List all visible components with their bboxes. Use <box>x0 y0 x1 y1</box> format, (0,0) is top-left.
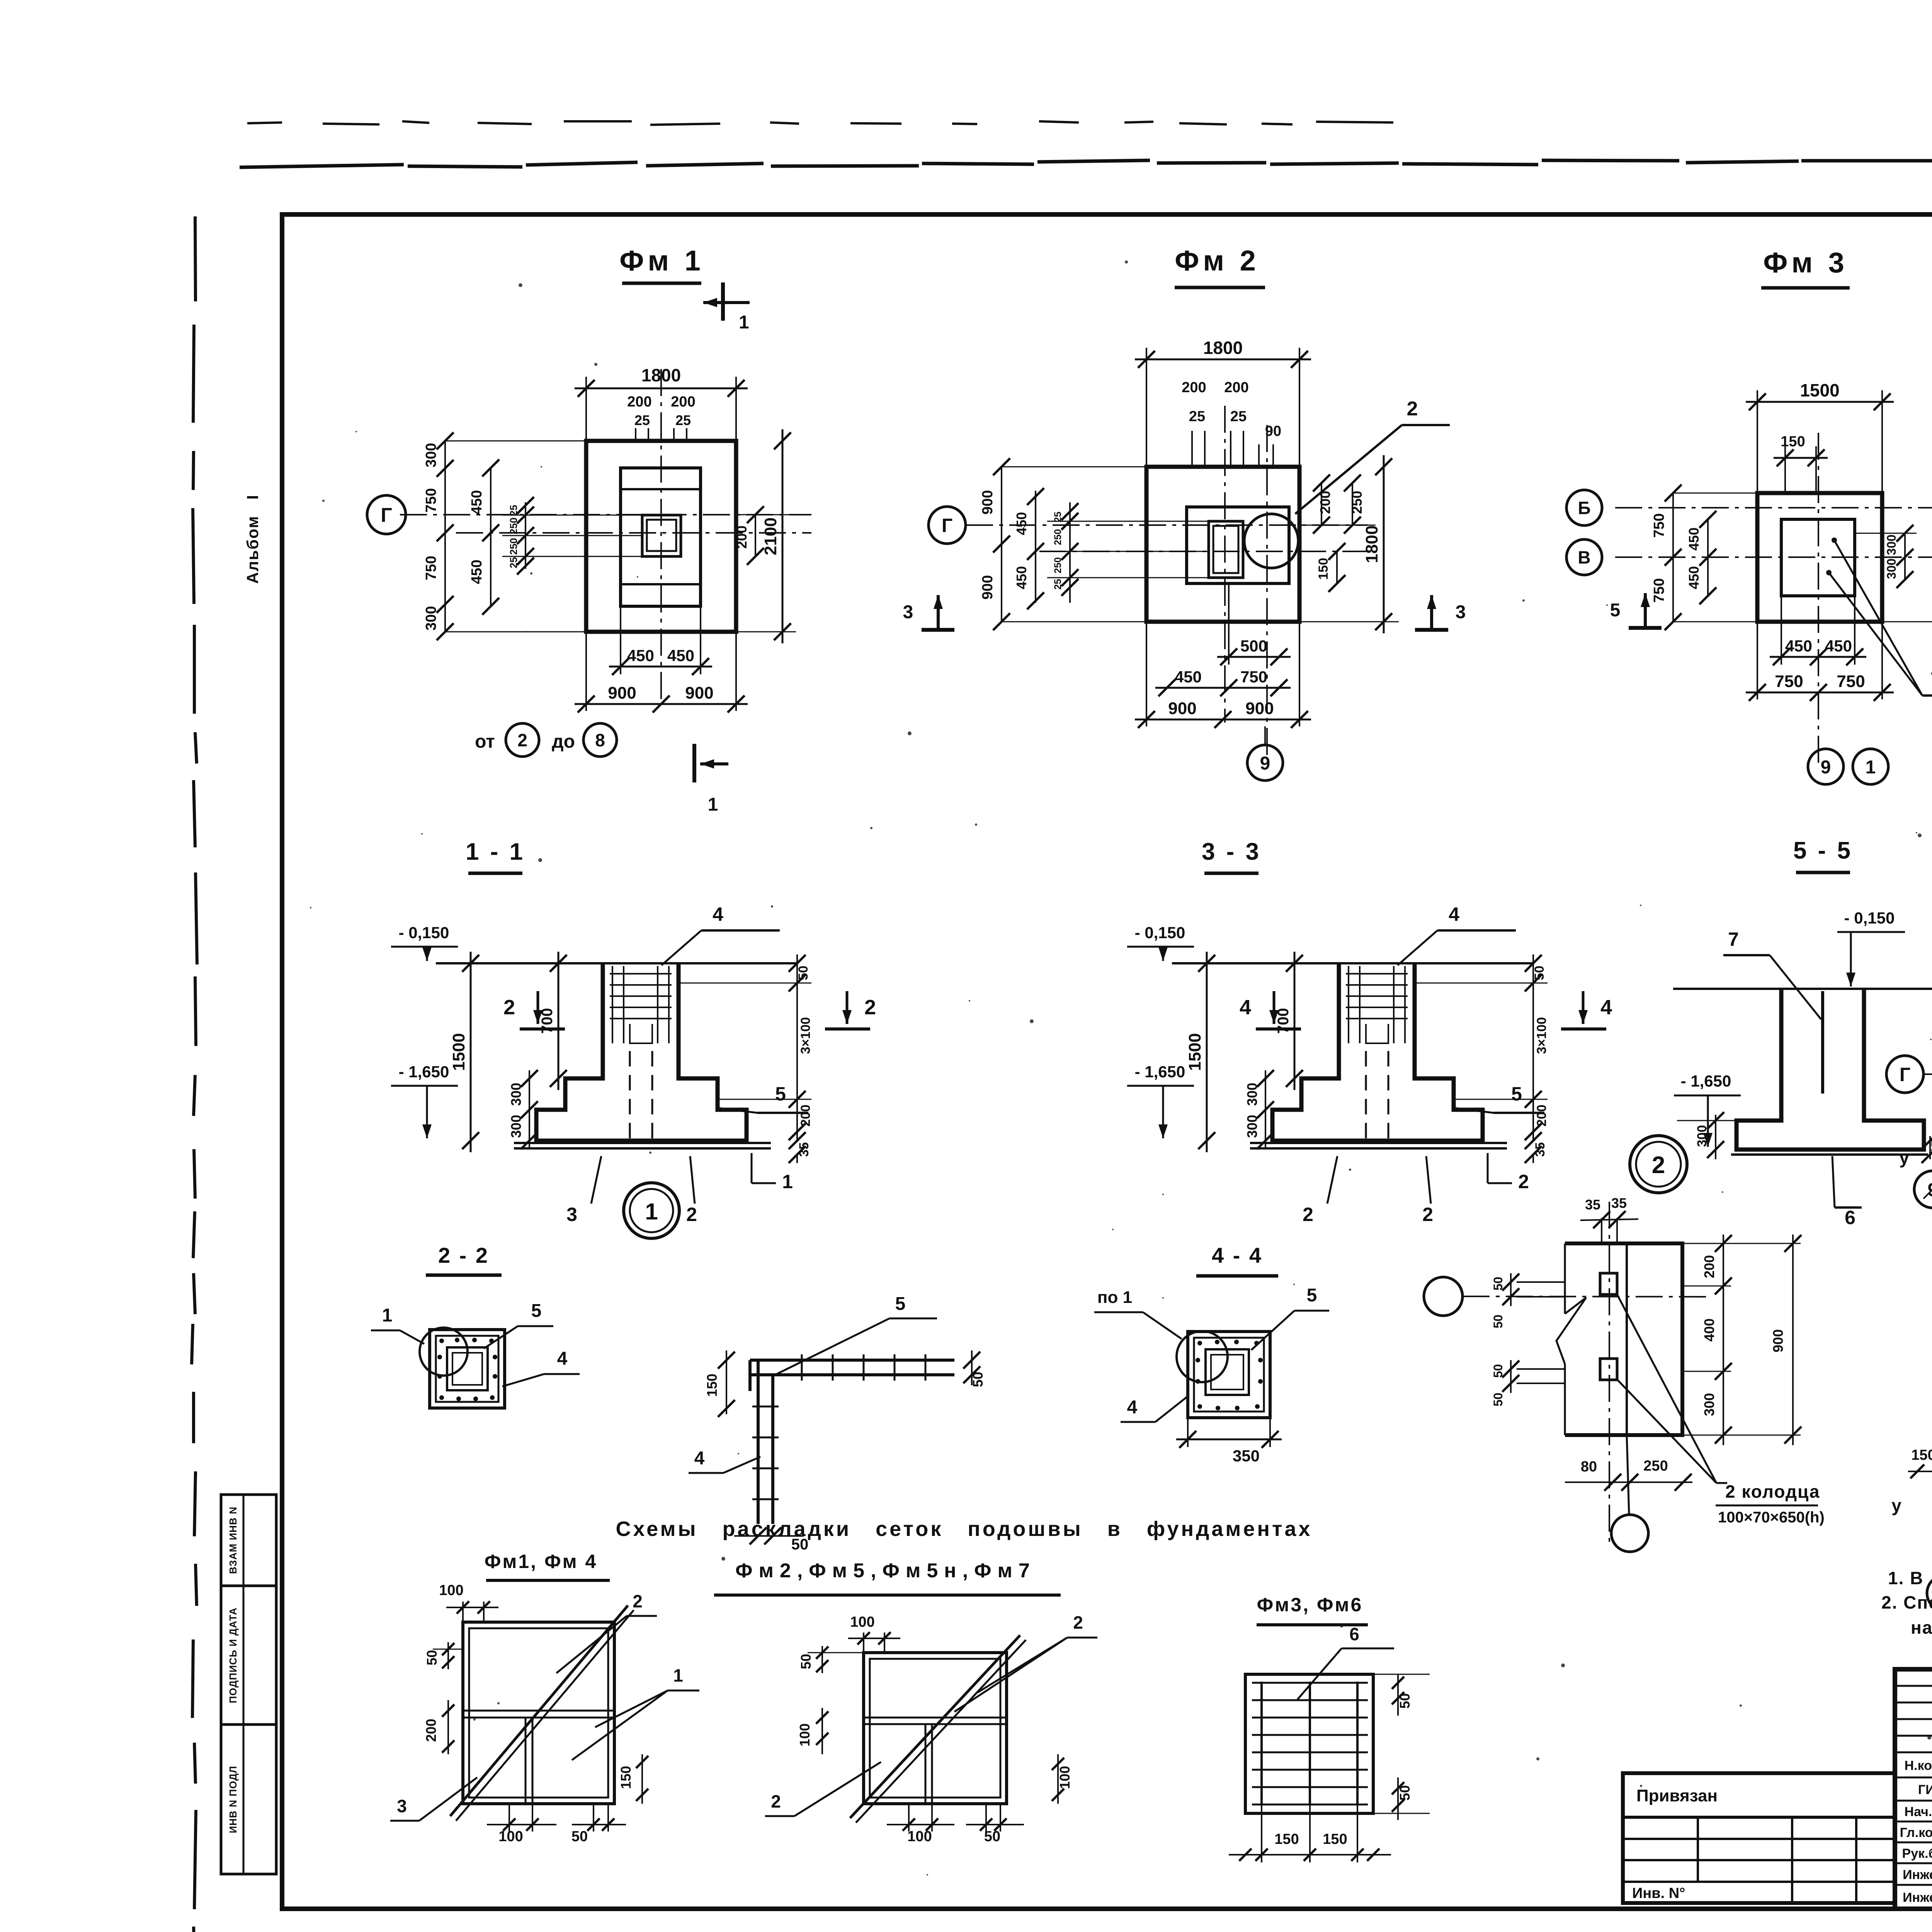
svg-text:Инженер: Инженер <box>1903 1867 1932 1882</box>
svg-text:300: 300 <box>1244 1115 1260 1138</box>
svg-text:3: 3 <box>1456 602 1466 622</box>
section 1 - 1 dim 700 <box>558 952 560 1090</box>
plan Fm3 dim 150 <box>1784 446 1786 493</box>
4-4 outer mesh square <box>1188 1332 1270 1418</box>
detail marker circle 2 <box>1630 1136 1687 1193</box>
svg-text:90: 90 <box>1265 423 1281 439</box>
svg-text:750: 750 <box>423 556 439 580</box>
svg-text:1500: 1500 <box>1929 539 1932 577</box>
svg-text:Гл.констр: Гл.констр <box>1900 1825 1932 1840</box>
svg-text:900: 900 <box>1245 699 1274 718</box>
svg-text:450: 450 <box>469 560 485 584</box>
svg-text:Фм2,Фм5,Фм5н,Фм7: Фм2,Фм5,Фм5н,Фм7 <box>735 1560 1036 1582</box>
svg-text:4: 4 <box>1127 1397 1138 1418</box>
svg-text:1800: 1800 <box>641 365 681 385</box>
sheet frame <box>282 214 1932 1909</box>
svg-text:- 0,150: - 0,150 <box>399 923 449 942</box>
svg-text:5: 5 <box>895 1294 906 1314</box>
svg-text:750: 750 <box>1651 578 1667 602</box>
4-4 inner mesh square <box>1206 1349 1249 1395</box>
svg-text:450: 450 <box>1014 566 1029 589</box>
svg-text:50: 50 <box>1532 966 1547 980</box>
section 3 - 3 dim 35 <box>1532 1155 1534 1163</box>
svg-text:25: 25 <box>634 412 650 428</box>
svg-text:200: 200 <box>1224 379 1248 396</box>
small left table privyazan <box>1623 1773 1895 1903</box>
plan Fm2 bottom dims 500 <box>1228 583 1230 665</box>
svg-text:50: 50 <box>571 1828 588 1845</box>
svg-text:250: 250 <box>1349 491 1365 514</box>
svg-text:35: 35 <box>1611 1195 1627 1211</box>
svg-text:750: 750 <box>1651 513 1667 537</box>
svg-text:3: 3 <box>566 1204 577 1225</box>
svg-text:3×100: 3×100 <box>1534 1017 1549 1054</box>
svg-text:Фм 2: Фм 2 <box>1175 245 1260 277</box>
section 1 - 1 column rebar <box>612 966 613 1043</box>
svg-text:100×70×650(h): 100×70×650(h) <box>1718 1509 1825 1526</box>
svg-text:35: 35 <box>797 1142 811 1157</box>
mesh Fm3 bottom dim 150 150 <box>1261 1806 1262 1862</box>
svg-text:50: 50 <box>1491 1277 1505 1291</box>
svg-text:2: 2 <box>864 996 876 1019</box>
svg-text:от: от <box>475 731 495 752</box>
svg-text:25: 25 <box>1053 579 1063 590</box>
svg-text:4: 4 <box>1240 996 1251 1019</box>
plan Fm3 bottom dims 750 750 <box>1757 622 1758 699</box>
plan Fm3 callout 7 <box>1922 694 1932 697</box>
svg-text:50: 50 <box>1491 1393 1505 1406</box>
svg-text:250: 250 <box>1053 529 1063 545</box>
svg-text:1: 1 <box>708 794 718 815</box>
svg-text:25: 25 <box>1189 408 1205 425</box>
well plan axis circle bottom <box>1611 1515 1648 1552</box>
svg-text:150: 150 <box>1323 1831 1347 1847</box>
svg-text:В: В <box>1578 548 1590 568</box>
section 3 - 3 dim 1500 <box>1206 952 1208 1152</box>
svg-text:1 - 1: 1 - 1 <box>466 838 525 865</box>
svg-text:750: 750 <box>1837 672 1865 691</box>
anchor well 1 <box>1600 1273 1617 1294</box>
plan Fm2 dim chain 450 450 <box>1035 491 1036 603</box>
well plan axis circle left <box>1424 1277 1463 1316</box>
svg-text:80: 80 <box>1581 1459 1597 1475</box>
svg-text:7: 7 <box>1728 929 1739 950</box>
schema Fm2 axis circle 9 <box>1914 1171 1932 1208</box>
title block blank rows <box>1895 1685 1932 1687</box>
section 1 - 1 foundation outline <box>536 963 747 1141</box>
svg-text:1500: 1500 <box>1185 1033 1204 1071</box>
plan Fm1 bottom dims 450 450 <box>620 606 621 674</box>
svg-text:200: 200 <box>798 1105 813 1127</box>
svg-text:250: 250 <box>508 517 519 534</box>
svg-text:300: 300 <box>508 1083 524 1106</box>
plan Fm1 section mark 1 top <box>721 282 725 321</box>
svg-text:250: 250 <box>1643 1458 1668 1474</box>
corner detail dim 150 <box>726 1350 727 1414</box>
svg-text:450: 450 <box>1825 637 1852 655</box>
section 3 - 3 right chain 50 3x100 200 <box>1415 983 1548 984</box>
svg-text:ПОДПИСЬ И ДАТА: ПОДПИСЬ И ДАТА <box>227 1607 239 1703</box>
svg-text:450: 450 <box>1175 668 1202 686</box>
svg-text:Н.контр.: Н.контр. <box>1905 1759 1932 1773</box>
title block outer <box>1895 1669 1932 1909</box>
plan Fm3 section marks 5 <box>1644 593 1647 628</box>
svg-text:200: 200 <box>734 526 750 549</box>
faint secondary torn line top-left <box>247 121 1393 125</box>
svg-text:2: 2 <box>633 1591 643 1611</box>
2-2 detail circle <box>420 1328 468 1376</box>
svg-text:450: 450 <box>1686 566 1702 589</box>
mesh Fm3 horizontal bars <box>1252 1682 1368 1684</box>
section 5-5 dim 300 <box>1715 1115 1716 1159</box>
plan Fm1 right dim 2100 <box>736 631 796 633</box>
plan Fm2 dim chain 25 250 250 25 <box>1069 502 1071 603</box>
svg-text:у: у <box>1899 1148 1909 1168</box>
svg-text:500: 500 <box>1240 637 1267 655</box>
plan Fm1 section mark 1 bottom <box>692 744 696 782</box>
svg-text:150: 150 <box>1316 558 1331 580</box>
svg-text:100: 100 <box>498 1828 523 1845</box>
svg-text:300: 300 <box>1244 1083 1260 1106</box>
section 5-5 bedding line <box>1731 1153 1928 1156</box>
plan Fm2 top dim 1800 <box>1146 348 1147 467</box>
section 1 - 1 bedding mat <box>514 1142 771 1144</box>
plan Fm1 left dim chain 300 750 750 300 <box>444 441 446 632</box>
svg-text:Привязан: Привязан <box>1636 1786 1718 1805</box>
svg-text:450: 450 <box>1785 637 1812 655</box>
svg-text:50: 50 <box>796 966 811 980</box>
axis circles B and V <box>1566 490 1602 526</box>
mesh Fm2 diagonal <box>850 1635 1020 1818</box>
svg-text:350: 350 <box>1233 1447 1260 1465</box>
svg-text:450: 450 <box>627 646 654 665</box>
svg-text:ГИП: ГИП <box>1918 1782 1932 1797</box>
section 5-5 outline <box>1736 989 1924 1150</box>
well plan right dim 900 <box>1792 1235 1794 1445</box>
svg-text:4: 4 <box>1449 903 1459 925</box>
svg-text:200: 200 <box>1701 1255 1717 1278</box>
svg-text:300: 300 <box>1884 558 1898 579</box>
svg-text:50: 50 <box>1491 1364 1505 1378</box>
plan Fm2 section marks 3 <box>937 595 940 630</box>
plan Fm2 bottom dims 900 900 <box>1146 622 1147 726</box>
svg-text:Фм 3: Фм 3 <box>1763 247 1848 279</box>
svg-text:25: 25 <box>1230 408 1247 425</box>
svg-text:Фм 1: Фм 1 <box>619 245 704 277</box>
2-2 rebar dots <box>439 1338 444 1343</box>
4-4 detail circle <box>1177 1331 1228 1382</box>
svg-text:5: 5 <box>1307 1285 1317 1306</box>
svg-text:2: 2 <box>1652 1152 1665 1179</box>
svg-text:450: 450 <box>1014 512 1029 535</box>
well plan leader 2 wells <box>1617 1294 1716 1483</box>
svg-text:9: 9 <box>1821 757 1831 777</box>
svg-text:450: 450 <box>667 646 694 665</box>
svg-text:2: 2 <box>1407 398 1418 420</box>
schema Fm2 y-axis diagonal <box>1923 885 1932 1199</box>
svg-text:2 - 2: 2 - 2 <box>438 1243 489 1267</box>
svg-text:Рук.бриг.: Рук.бриг. <box>1902 1846 1932 1861</box>
plan Fm1 right dim 200 <box>736 514 810 515</box>
mesh Fm1 diagonal <box>450 1605 628 1816</box>
svg-text:1: 1 <box>739 312 749 333</box>
svg-text:300: 300 <box>423 606 439 630</box>
svg-text:150: 150 <box>704 1374 720 1397</box>
svg-text:200: 200 <box>1534 1105 1549 1127</box>
svg-text:4 - 4: 4 - 4 <box>1212 1243 1263 1267</box>
section 1 - 1 ground line <box>436 962 797 964</box>
svg-text:Г: Г <box>942 515 952 536</box>
anchor well 2 <box>1600 1359 1617 1380</box>
svg-text:ИНВ N ПОДЛ: ИНВ N ПОДЛ <box>227 1766 239 1833</box>
plan Fm2 right dim 1800 <box>1299 621 1399 622</box>
svg-text:9: 9 <box>1260 753 1270 774</box>
detail marker circle 1 <box>624 1183 679 1238</box>
plan Fm3 bottom dims 450 450 <box>1781 596 1782 665</box>
svg-text:до: до <box>552 731 575 752</box>
svg-text:200: 200 <box>627 394 651 410</box>
svg-text:300: 300 <box>508 1115 524 1138</box>
plan Fm2 outer footing <box>1146 467 1299 622</box>
svg-text:1: 1 <box>1866 757 1876 777</box>
svg-text:4: 4 <box>713 903 723 925</box>
svg-text:2: 2 <box>1303 1204 1313 1225</box>
svg-text:200: 200 <box>671 394 695 410</box>
axis circle G2 <box>929 507 966 544</box>
svg-text:ВЗАМ ИНВ N: ВЗАМ ИНВ N <box>227 1507 239 1574</box>
svg-text:1. В таблицах даны норм: 1. В таблицах даны нормативные нагрузки. <box>1888 1568 1932 1588</box>
svg-text:8: 8 <box>595 730 605 750</box>
svg-text:1: 1 <box>645 1199 658 1225</box>
plan Fm3 left dim chain 750 750 <box>1672 493 1674 622</box>
svg-text:2100: 2100 <box>761 517 780 555</box>
svg-text:100: 100 <box>850 1614 874 1630</box>
svg-text:Альбом I: Альбом I <box>243 494 262 584</box>
svg-text:Б: Б <box>1578 498 1590 518</box>
schema Fm3 axis circle 9 <box>1927 1575 1932 1611</box>
svg-text:5: 5 <box>531 1301 542 1321</box>
svg-text:6: 6 <box>1349 1624 1359 1644</box>
svg-text:2 колодца: 2 колодца <box>1725 1481 1820 1502</box>
svg-text:400: 400 <box>1701 1318 1717 1342</box>
svg-text:1: 1 <box>782 1171 793 1192</box>
svg-text:Схемы раскладки сеток по: Схемы раскладки сеток подошвы в фундамен… <box>616 1517 1312 1541</box>
torn paper top edge <box>240 157 1932 167</box>
svg-text:750: 750 <box>423 488 439 512</box>
plan Fm3 top dim 1500 <box>1757 390 1758 493</box>
plan Fm1 top dim 1800 <box>585 377 587 441</box>
svg-text:200: 200 <box>423 1719 439 1742</box>
svg-text:25: 25 <box>508 557 519 568</box>
svg-text:35: 35 <box>1533 1142 1548 1157</box>
svg-text:2: 2 <box>1073 1612 1083 1633</box>
svg-text:900: 900 <box>1168 699 1196 718</box>
section 5-5 dim 110 <box>1864 988 1932 990</box>
svg-text:4: 4 <box>557 1349 568 1369</box>
plan Fm3 axis circles 9 1 <box>1808 749 1844 784</box>
svg-text:900: 900 <box>685 684 713 702</box>
schema Fm2 axis G <box>1886 1056 1923 1093</box>
svg-text:2: 2 <box>1422 1204 1433 1225</box>
mesh Fm1 outer <box>463 1622 614 1804</box>
svg-text:100: 100 <box>797 1723 813 1747</box>
svg-text:2: 2 <box>1518 1171 1529 1192</box>
svg-text:2. Спецификацию на фундамен: 2. Спецификацию на фундаменты Фм1,Фм2,Фм… <box>1881 1592 1932 1612</box>
section 5-5 dim 35 <box>1929 1136 1931 1159</box>
svg-text:- 0,150: - 0,150 <box>1135 923 1185 942</box>
svg-text:- 1,650: - 1,650 <box>1681 1072 1731 1090</box>
svg-text:4: 4 <box>694 1448 705 1469</box>
svg-text:- 1,650: - 1,650 <box>1135 1063 1185 1081</box>
svg-text:150: 150 <box>1781 434 1805 450</box>
svg-text:50: 50 <box>424 1650 440 1665</box>
svg-text:50: 50 <box>798 1654 814 1669</box>
svg-text:900: 900 <box>980 490 996 514</box>
svg-text:900: 900 <box>1770 1329 1786 1352</box>
well plan break symbol <box>1556 1298 1586 1364</box>
svg-text:Фм3, Фм6: Фм3, Фм6 <box>1257 1594 1363 1616</box>
svg-text:Г: Г <box>1900 1064 1910 1085</box>
corner mesh detail bars <box>750 1359 954 1362</box>
well plan outline <box>1565 1243 1682 1435</box>
svg-text:50: 50 <box>1491 1315 1505 1328</box>
svg-text:7: 7 <box>1930 668 1932 690</box>
svg-text:Инв. N°: Инв. N° <box>1632 1885 1685 1901</box>
svg-text:200: 200 <box>1317 491 1333 514</box>
title block name rows <box>1895 1777 1932 1779</box>
plan Fm2 centerlines <box>966 524 1368 526</box>
svg-text:150: 150 <box>1911 1447 1932 1463</box>
mesh Fm3 outer <box>1245 1674 1373 1813</box>
plan Fm2 column box <box>1209 521 1243 578</box>
svg-text:100: 100 <box>907 1828 932 1845</box>
svg-text:100: 100 <box>439 1582 463 1599</box>
plan Fm3 centerlines <box>1615 507 1932 509</box>
axis circle G <box>367 495 406 534</box>
svg-text:9: 9 <box>1928 1180 1932 1200</box>
svg-text:5: 5 <box>775 1083 786 1105</box>
plan Fm2 axis circle 9 <box>1247 745 1283 781</box>
plan Fm1 dim chain 450 450 <box>490 468 492 606</box>
well plan inner line <box>1626 1243 1628 1435</box>
svg-text:на листе КЖ-8.: на листе КЖ-8. <box>1911 1617 1932 1638</box>
mesh Fm2 mid bands <box>864 1717 1007 1719</box>
svg-text:300: 300 <box>1695 1125 1709 1147</box>
svg-text:Фм1, Фм 4: Фм1, Фм 4 <box>485 1551 598 1572</box>
svg-text:900: 900 <box>608 684 636 702</box>
section 5-5 ground line <box>1673 988 1932 990</box>
plan Fm3 right dim 1500 <box>1882 621 1932 622</box>
mesh Fm2 outer <box>864 1653 1007 1804</box>
svg-text:200: 200 <box>1182 379 1206 396</box>
svg-text:6: 6 <box>1845 1207 1855 1228</box>
section 3 - 3 dim 700 <box>1294 952 1296 1090</box>
svg-text:100: 100 <box>1057 1766 1073 1789</box>
section 5-5 center rebar outlet <box>1821 991 1824 1094</box>
svg-text:150: 150 <box>618 1766 634 1789</box>
svg-text:3: 3 <box>903 602 913 622</box>
section 1 - 1 dim 1500 <box>470 952 472 1152</box>
plan Fm2 right dims 200 250 <box>1299 525 1376 526</box>
svg-text:1800: 1800 <box>1362 526 1381 563</box>
plan Fm1 dim chain 25 250 250 25 <box>525 502 526 569</box>
well plan centerline <box>1609 1202 1610 1542</box>
svg-text:у: у <box>1891 1495 1901 1515</box>
svg-text:4: 4 <box>1600 996 1612 1019</box>
4-4 dim 350 <box>1187 1418 1189 1447</box>
section 3 - 3 dims 300 300 <box>1265 1070 1266 1150</box>
svg-text:Инженер: Инженер <box>1903 1890 1932 1905</box>
plan Fm1 centerlines <box>400 514 811 515</box>
svg-text:- 1,650: - 1,650 <box>399 1063 449 1081</box>
svg-text:1: 1 <box>382 1305 393 1326</box>
svg-text:25: 25 <box>508 505 519 516</box>
svg-text:250: 250 <box>1053 557 1063 573</box>
2-2 outer mesh square <box>430 1330 505 1408</box>
plan Fm1 column box <box>642 515 681 556</box>
scan speckles <box>1740 1704 1742 1707</box>
svg-text:Нач.отд.: Нач.отд. <box>1905 1804 1932 1819</box>
svg-text:35: 35 <box>1585 1197 1600 1213</box>
svg-text:900: 900 <box>980 575 996 599</box>
plan Fm1 bottom dims 900 900 <box>585 632 587 711</box>
svg-text:2: 2 <box>686 1204 697 1225</box>
mesh Fm3 vertical bars <box>1260 1682 1263 1806</box>
svg-text:300: 300 <box>423 443 439 467</box>
plan Fm3 dim chain 450 450 <box>1707 519 1709 596</box>
plan Fm1 outer footing <box>586 441 736 632</box>
well plan right chain 200 400 300 <box>1682 1243 1731 1244</box>
corner detail dim 50 right <box>971 1350 973 1385</box>
plan Fm3 column footprint <box>1781 519 1855 596</box>
svg-text:1500: 1500 <box>449 1033 468 1071</box>
svg-text:по 1: по 1 <box>1097 1288 1132 1307</box>
svg-text:3 - 3: 3 - 3 <box>1202 838 1261 865</box>
svg-text:25: 25 <box>675 412 691 428</box>
svg-text:- 0,150: - 0,150 <box>1844 909 1895 927</box>
svg-text:450: 450 <box>469 490 485 514</box>
svg-text:5 - 5: 5 - 5 <box>1793 837 1853 864</box>
svg-text:3×100: 3×100 <box>798 1017 813 1054</box>
svg-text:300: 300 <box>1884 534 1898 555</box>
section 1 - 1 right chain 50 3x100 200 <box>679 983 811 984</box>
left paper edge dashes <box>192 216 197 1932</box>
2-2 inner mesh square <box>447 1347 488 1390</box>
svg-text:50: 50 <box>970 1372 986 1387</box>
plan Fm1 pedestal <box>621 468 701 606</box>
plan Fm3 right dims 300 300 <box>1855 533 1917 534</box>
svg-text:1500: 1500 <box>1800 380 1839 400</box>
section 3 - 3 bedding mat <box>1250 1142 1507 1144</box>
corner detail dim 50 bottom <box>734 1535 804 1537</box>
section 3 - 3 column rebar <box>1348 966 1349 1043</box>
svg-text:1: 1 <box>673 1665 683 1685</box>
svg-text:750: 750 <box>1775 672 1803 691</box>
left stamp strip boxes <box>221 1495 276 1586</box>
section 1 - 1 dim 35 <box>796 1155 798 1163</box>
well plan left dims 50 50 50 50 <box>1517 1281 1565 1283</box>
svg-text:750: 750 <box>1240 668 1267 686</box>
svg-text:2: 2 <box>517 730 527 750</box>
svg-text:2: 2 <box>503 996 515 1019</box>
svg-text:5: 5 <box>1610 600 1621 621</box>
plan Fm2 pedestal <box>1187 507 1289 583</box>
well plan bottom dim 80 250 <box>1565 1481 1692 1483</box>
plan Fm2 detail circle 2 <box>1244 514 1298 568</box>
svg-text:250: 250 <box>508 538 519 554</box>
svg-text:1800: 1800 <box>1203 338 1243 358</box>
section 3 - 3 ground line <box>1172 962 1533 964</box>
